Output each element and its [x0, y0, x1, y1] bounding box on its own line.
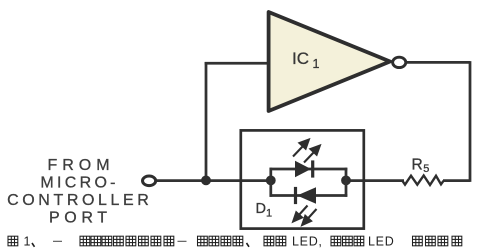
D1 box — [241, 130, 364, 228]
wire: right vertical down to resistor line — [469, 61, 472, 182]
port terminal circle — [143, 176, 156, 186]
resistor R5 zigzag — [403, 176, 444, 186]
wire: resistor to right corner — [443, 179, 470, 182]
wire: left branch vertical — [269, 168, 272, 197]
svg-text:PORT: PORT — [49, 210, 112, 227]
wire: input horizontal from node column to inverter — [205, 62, 268, 65]
LED 2 emission arrows (down-left) — [293, 206, 316, 225]
svg-text:FROM: FROM — [47, 157, 114, 174]
LED 1 (top, pointing right) — [295, 161, 311, 177]
wire: right LED node to resistor — [346, 179, 404, 182]
LED 2 (bottom, pointing left) — [297, 187, 316, 203]
text FROM MICRO-CONTROLLER PORT — [7, 157, 152, 227]
LED 1 emission arrows (up-right) — [293, 140, 320, 163]
svg-text:LED,: LED, — [292, 235, 323, 249]
svg-text:CONTROLLER: CONTROLLER — [7, 192, 152, 209]
inverter IC1 triangle — [269, 12, 390, 111]
node junction at inverter input tap — [201, 176, 211, 186]
svg-text:MICRO-: MICRO- — [40, 174, 118, 191]
wire: top branch horizontal — [270, 168, 348, 171]
svg-text:LED: LED — [368, 235, 394, 249]
wire: right branch vertical — [345, 168, 348, 197]
node B: right LED node — [341, 176, 351, 186]
wire: bottom branch horizontal — [270, 194, 348, 197]
wire: port terminal to left LED node — [157, 179, 272, 182]
wire: vertical from junction up to inverter input — [205, 62, 208, 181]
caption: 图 1、一只反相器可以驱动一只双向、双色 LED，但两只 LED 流过的电 — [8, 236, 462, 247]
svg-text:1: 1 — [24, 235, 31, 249]
wire: inverter output to right corner — [405, 61, 470, 64]
inverter output bubble — [393, 57, 406, 67]
node A: left LED node — [266, 176, 276, 186]
